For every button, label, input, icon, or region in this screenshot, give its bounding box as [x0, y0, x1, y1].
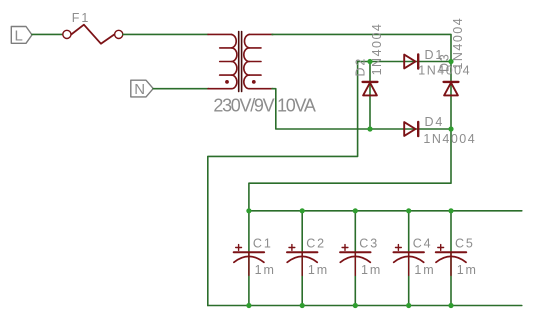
right winding arcs: [244, 34, 250, 88]
junction C2 top: [300, 208, 305, 213]
junction C4 top: [406, 208, 411, 213]
wire capacitor top rail: [249, 210, 522, 212]
capacitor C5: [436, 211, 466, 306]
wire bridge top row: [358, 61, 451, 63]
svg-text:C5: C5: [455, 237, 475, 251]
capacitor C2: [287, 211, 317, 306]
capacitor C1: [234, 211, 264, 306]
wire D3 column: [450, 62, 452, 130]
junction C3 bottom: [353, 303, 358, 308]
svg-text:1m: 1m: [361, 263, 382, 277]
svg-text:C2: C2: [306, 237, 326, 251]
transformer core: [239, 32, 242, 92]
right winding rails: [249, 33, 273, 35]
svg-text:D4: D4: [425, 115, 445, 129]
wire N to transformer: [153, 88, 209, 90]
svg-text:C3: C3: [359, 237, 379, 251]
junction bridge bottom-left: [367, 126, 372, 131]
wire transformer top to bridge: [272, 34, 451, 61]
svg-text:1m: 1m: [414, 263, 435, 277]
svg-text:C1: C1: [253, 237, 273, 251]
svg-text:C4: C4: [413, 237, 433, 251]
junction C1 top: [246, 208, 251, 213]
wire bridge left output down-left-down to bottom rail: [208, 62, 358, 306]
svg-text:1N4004: 1N4004: [370, 23, 384, 76]
fuse F1: [63, 25, 123, 44]
svg-text:1m: 1m: [255, 263, 276, 277]
junction C5 bottom: [448, 303, 453, 308]
junction bridge bottom-right: [448, 126, 453, 131]
svg-text:1m: 1m: [308, 263, 329, 277]
svg-text:230V/9V 10VA: 230V/9V 10VA: [213, 95, 315, 115]
wire L to fuse: [32, 33, 63, 35]
transformer polarity dot left: [225, 80, 229, 84]
diode D1: [370, 54, 451, 68]
junction C2 bottom: [300, 303, 305, 308]
wire bridge output to capacitor rail: [249, 129, 451, 211]
junction bridge top-left: [367, 59, 372, 64]
svg-text:N: N: [134, 81, 145, 98]
junction C3 top: [353, 208, 358, 213]
wire fuse to transformer: [123, 33, 208, 35]
left winding arcs: [231, 34, 237, 88]
junction C5 top: [448, 208, 453, 213]
diode D2: [363, 82, 378, 96]
diode D4: [404, 122, 418, 136]
terminal N: [131, 80, 153, 98]
capacitor C3: [340, 211, 370, 306]
wire transformer bottom to bridge bottom row: [272, 89, 451, 129]
svg-text:D2: D2: [353, 57, 367, 77]
svg-text:L: L: [15, 27, 23, 44]
junction bridge top-right: [448, 59, 453, 64]
diode D3: [444, 82, 459, 96]
capacitor C4: [394, 211, 424, 306]
wire capacitor bottom rail: [208, 305, 522, 307]
svg-text:1N4004: 1N4004: [423, 132, 476, 146]
transformer TR1: [208, 34, 273, 88]
terminal L: [11, 27, 32, 45]
junction C4 bottom: [406, 303, 411, 308]
svg-text:F1: F1: [72, 11, 90, 25]
transformer polarity dot right: [252, 80, 256, 84]
svg-text:1m: 1m: [457, 263, 478, 277]
left winding rails: [208, 33, 231, 35]
wire D2 column: [369, 62, 371, 130]
junction C1 bottom: [246, 303, 251, 308]
